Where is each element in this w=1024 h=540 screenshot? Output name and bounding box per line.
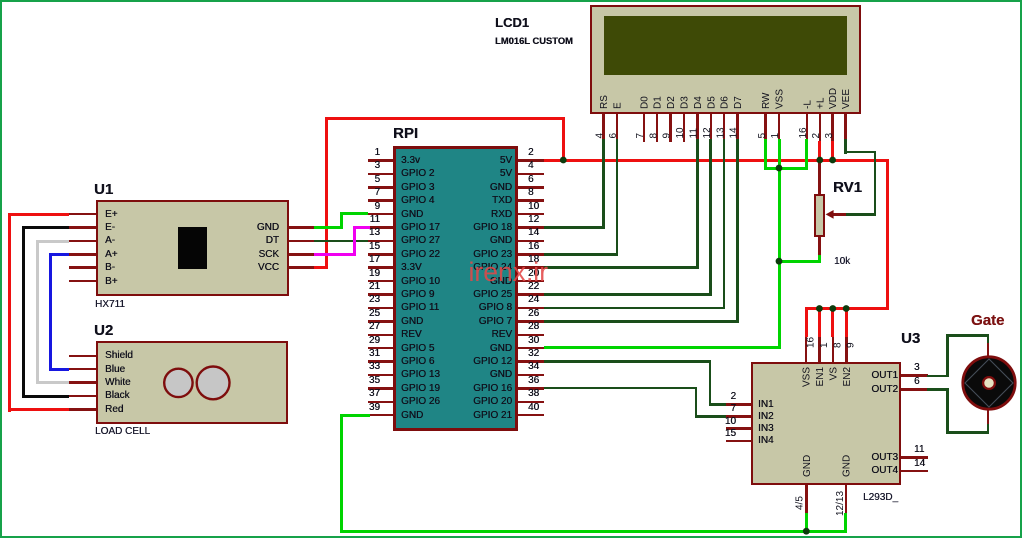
svg-text:3: 3 xyxy=(824,133,835,139)
svg-text:D2: D2 xyxy=(666,96,677,109)
svg-text:VDD: VDD xyxy=(828,88,839,109)
svg-text:D1: D1 xyxy=(653,96,664,109)
svg-text:D4: D4 xyxy=(693,96,704,109)
svg-text:VEE: VEE xyxy=(841,89,852,109)
svg-text:16: 16 xyxy=(806,336,817,348)
svg-text:6: 6 xyxy=(608,133,619,139)
svg-text:9: 9 xyxy=(662,133,673,139)
svg-text:8: 8 xyxy=(832,342,843,348)
svg-text:E: E xyxy=(613,102,624,109)
svg-text:-L: -L xyxy=(802,100,813,109)
svg-text:8: 8 xyxy=(648,133,659,139)
svg-text:1: 1 xyxy=(770,133,781,139)
svg-text:13: 13 xyxy=(715,127,726,139)
svg-text:D7: D7 xyxy=(733,96,744,109)
svg-text:12: 12 xyxy=(702,127,713,139)
svg-text:5: 5 xyxy=(757,133,768,139)
svg-text:D5: D5 xyxy=(706,96,717,109)
svg-text:9: 9 xyxy=(846,342,857,348)
svg-text:2: 2 xyxy=(811,133,822,139)
svg-text:4: 4 xyxy=(595,133,606,139)
svg-text:1: 1 xyxy=(819,342,830,348)
svg-text:VSS: VSS xyxy=(775,89,786,109)
svg-text:RS: RS xyxy=(599,95,610,109)
svg-text:VS: VS xyxy=(828,367,839,381)
svg-text:GND: GND xyxy=(802,455,813,477)
svg-text:GND: GND xyxy=(841,455,852,477)
svg-text:12/13: 12/13 xyxy=(835,491,846,516)
svg-text:RW: RW xyxy=(761,92,772,109)
svg-text:EN1: EN1 xyxy=(815,367,826,387)
svg-text:D6: D6 xyxy=(720,96,731,109)
svg-text:D0: D0 xyxy=(639,96,650,109)
svg-text:11: 11 xyxy=(689,128,700,139)
svg-text:10: 10 xyxy=(675,127,686,139)
svg-text:14: 14 xyxy=(729,127,740,139)
svg-text:7: 7 xyxy=(635,133,646,139)
svg-text:VSS: VSS xyxy=(802,367,813,387)
svg-text:EN2: EN2 xyxy=(842,367,853,387)
svg-text:16: 16 xyxy=(798,127,809,139)
svg-text:4/5: 4/5 xyxy=(794,496,805,510)
svg-text:D3: D3 xyxy=(680,96,691,109)
svg-text:+L: +L xyxy=(815,97,826,109)
